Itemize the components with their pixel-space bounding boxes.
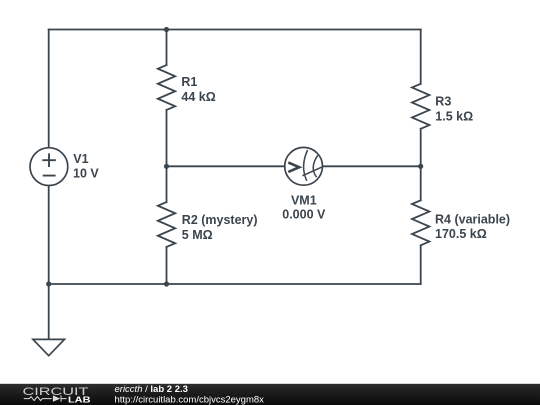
svg-text:10 V: 10 V — [73, 167, 99, 181]
node middle-right junction — [418, 164, 423, 169]
wire middle vertical mid — [166, 110, 168, 202]
resistor R3 — [412, 84, 429, 129]
node middle-left junction — [164, 164, 169, 169]
resistor R2 — [158, 202, 175, 247]
node bottom-left junction — [46, 281, 51, 286]
wire top horizontal — [49, 29, 421, 31]
wire middle horizontal — [167, 165, 421, 167]
resistor R4 — [412, 200, 429, 245]
svg-text:5 MΩ: 5 MΩ — [182, 228, 213, 242]
wire right vertical lower — [420, 245, 422, 284]
wire left vertical — [48, 30, 50, 285]
svg-text:V1: V1 — [73, 152, 88, 166]
footer bar — [0, 384, 540, 405]
svg-text:170.5 kΩ: 170.5 kΩ — [435, 227, 487, 241]
svg-text:1.5 kΩ: 1.5 kΩ — [435, 109, 473, 123]
svg-text:VM1: VM1 — [291, 193, 317, 207]
ground stem — [48, 284, 50, 339]
wire middle vertical upper — [166, 30, 168, 66]
svg-text:R2 (mystery): R2 (mystery) — [182, 213, 258, 227]
wire right vertical mid — [420, 129, 422, 201]
svg-text:R1: R1 — [181, 75, 197, 89]
svg-text:R4 (variable): R4 (variable) — [435, 213, 510, 227]
wire bottom horizontal — [49, 283, 421, 285]
node bottom-middle junction — [164, 281, 169, 286]
CircuitLab logo symbol (resistor + diode) — [24, 395, 67, 401]
wire right vertical upper — [420, 30, 422, 84]
svg-text:LAB: LAB — [68, 395, 91, 404]
node top junction — [164, 27, 169, 32]
ground — [33, 339, 65, 355]
svg-text:44 kΩ: 44 kΩ — [181, 90, 215, 104]
svg-text:0.000 V: 0.000 V — [282, 208, 326, 222]
resistor R1 — [158, 65, 175, 110]
svg-text:http://circuitlab.com/cbjvcs2e: http://circuitlab.com/cbjvcs2eygm8x — [115, 394, 265, 405]
voltage source V1 — [30, 148, 68, 186]
wire middle vertical lower — [166, 247, 168, 284]
svg-text:R3: R3 — [435, 94, 451, 108]
voltmeter VM1 — [285, 147, 323, 185]
